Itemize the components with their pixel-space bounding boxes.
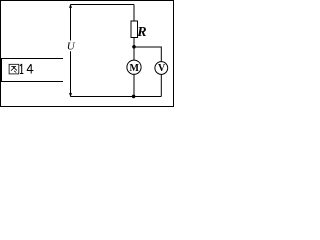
svg-text:V: V (158, 63, 166, 74)
svg-text:R: R (136, 25, 146, 40)
svg-text:U: U (67, 41, 76, 53)
svg-text:M: M (129, 63, 139, 74)
